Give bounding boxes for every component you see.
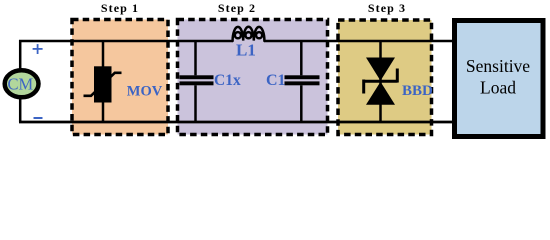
Step 1 stage box [72, 20, 168, 135]
capacitor C1 [285, 40, 320, 122]
wire: bottom return bus [19, 121, 453, 124]
node +: positive terminal mark [33, 44, 43, 54]
svg-text:Step 1: Step 1 [101, 1, 139, 15]
varistor MOV [84, 40, 122, 122]
svg-text:MOV: MOV [127, 83, 163, 99]
capacitor C1x [180, 40, 214, 122]
svg-text:BBD: BBD [402, 83, 433, 99]
wire: left source branch [19, 40, 22, 122]
svg-text:L1: L1 [236, 41, 256, 60]
wire: top bus right segment (inductor to load) [264, 40, 452, 43]
inductor L1 [233, 27, 265, 41]
node -: negative terminal mark [34, 117, 43, 119]
diode BBD (bidirectional breakdown diode) [364, 40, 398, 122]
Sensitive Load block [455, 21, 544, 137]
svg-text:Step 3: Step 3 [368, 1, 406, 15]
svg-text:Step 2: Step 2 [218, 1, 256, 15]
svg-text:Sensitive: Sensitive [466, 56, 530, 76]
wire: top bus left segment (source to inductor) [19, 40, 233, 43]
Step 3 stage box [338, 20, 432, 135]
svg-text:CM: CM [7, 75, 33, 94]
svg-text:Load: Load [480, 78, 516, 98]
Step 2 stage box [178, 20, 328, 135]
source CM (common-mode surge source) [5, 70, 39, 97]
svg-text:C1x: C1x [214, 72, 241, 89]
svg-text:C1: C1 [266, 72, 286, 89]
